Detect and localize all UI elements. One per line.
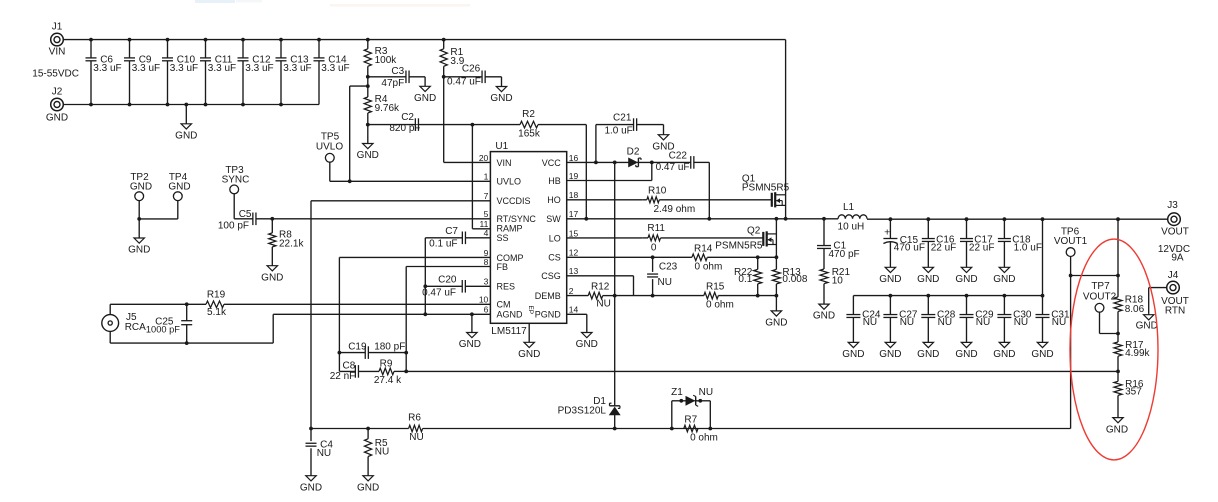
svg-text:CS: CS — [548, 253, 561, 263]
capacitor C22 0.47 uF — [637, 151, 709, 174]
svg-text:GND: GND — [993, 349, 1015, 360]
node C4 — [309, 427, 313, 431]
svg-text:8.06: 8.06 — [1125, 304, 1145, 315]
svg-text:27.4 k: 27.4 k — [374, 375, 402, 386]
svg-text:NU: NU — [596, 299, 610, 310]
resistor R22 0.1 — [734, 257, 762, 295]
node R7 right — [708, 427, 712, 431]
svg-text:820 pF: 820 pF — [389, 123, 420, 134]
node DEMB/R13 — [775, 294, 779, 298]
svg-text:GND: GND — [414, 93, 436, 104]
diode D1 PD3S120L — [558, 396, 620, 429]
svg-text:PSMN5R5: PSMN5R5 — [742, 182, 790, 193]
ground R5 — [357, 476, 379, 494]
svg-text:C22: C22 — [669, 151, 688, 162]
svg-text:GND: GND — [261, 272, 283, 283]
svg-text:3.3 uF: 3.3 uF — [93, 63, 121, 74]
svg-text:D2: D2 — [627, 146, 640, 157]
ground EP pad — [518, 323, 540, 360]
resistor R14 0 ohm — [692, 244, 758, 273]
connector J5 RCA — [102, 312, 146, 333]
svg-text:NU: NU — [900, 317, 914, 328]
node CS/R22 — [756, 255, 760, 259]
svg-text:0.1: 0.1 — [738, 274, 752, 285]
svg-text:3.3 uF: 3.3 uF — [170, 63, 198, 74]
svg-text:180 pF: 180 pF — [374, 342, 405, 353]
svg-text:VOUT2: VOUT2 — [1083, 291, 1117, 302]
svg-text:22 nF: 22 nF — [330, 371, 356, 382]
node D1 anode / VOUT row — [613, 427, 617, 431]
svg-text:5: 5 — [484, 209, 489, 219]
svg-text:GND: GND — [1136, 321, 1158, 332]
svg-text:GND: GND — [490, 93, 512, 104]
svg-text:GND: GND — [879, 349, 901, 360]
svg-text:4.99k: 4.99k — [1125, 348, 1150, 359]
wire C22 to SW — [708, 162, 710, 218]
ground C31 — [1031, 342, 1053, 360]
svg-text:L1: L1 — [843, 202, 855, 213]
svg-text:J2: J2 — [52, 86, 63, 97]
ground C29 — [955, 342, 977, 360]
svg-text:3.3 uF: 3.3 uF — [208, 63, 236, 74]
svg-text:17: 17 — [569, 209, 579, 219]
svg-text:R7: R7 — [684, 415, 697, 426]
wire Q1 drain to VIN rail — [785, 40, 787, 219]
test point TP6 VOUT1 — [1054, 226, 1088, 277]
svg-text:3.3 uF: 3.3 uF — [132, 63, 160, 74]
capacitor C24 NU — [846, 296, 880, 343]
node VCC/R2ramp — [594, 161, 598, 165]
test point TP4 GND — [139, 172, 190, 219]
svg-text:C5: C5 — [239, 209, 252, 220]
wire J5 bottom / AGND return — [110, 314, 490, 343]
svg-text:GND: GND — [917, 274, 939, 285]
svg-text:10: 10 — [479, 295, 489, 305]
svg-text:NU: NU — [938, 317, 952, 328]
svg-text:0 ohm: 0 ohm — [690, 432, 718, 443]
wire J4 to GND — [1149, 288, 1167, 314]
svg-text:SW: SW — [546, 214, 561, 224]
ground C24 — [842, 342, 864, 360]
wire bottom VOUT row — [311, 276, 1071, 429]
svg-text:VIN: VIN — [497, 158, 512, 168]
wire VCCDIS — [311, 201, 490, 429]
wire C19 right down — [404, 353, 408, 374]
capacitor C29 NU — [960, 294, 994, 343]
svg-text:0 ohm: 0 ohm — [695, 262, 723, 273]
svg-text:UVLO: UVLO — [497, 177, 522, 187]
ground J4 — [1136, 314, 1158, 332]
svg-text:HB: HB — [548, 176, 561, 186]
svg-text:GND: GND — [879, 274, 901, 285]
label 15-55VDC — [32, 69, 79, 80]
inductor L1 10 uH — [838, 202, 867, 232]
capacitor C13 3.3 uF — [276, 38, 312, 107]
svg-text:R10: R10 — [648, 185, 667, 196]
connector J3 VOUT — [1161, 200, 1189, 237]
svg-text:CM: CM — [497, 300, 511, 310]
wire C19 left down — [338, 353, 340, 372]
capacitor C5 100 pF — [218, 209, 272, 232]
svg-text:165k: 165k — [518, 128, 541, 139]
svg-text:1.0 uF: 1.0 uF — [1014, 243, 1042, 254]
svg-text:R6: R6 — [408, 413, 421, 424]
ground TP2/TP4 — [128, 219, 150, 256]
resistor R11 0 — [642, 223, 763, 253]
svg-text:HO: HO — [547, 195, 561, 205]
ground R13 — [765, 296, 787, 329]
resistor R17 4.99k — [1114, 333, 1151, 371]
ground input rail — [175, 103, 197, 142]
capacitor C18 1.0 uF — [998, 217, 1042, 267]
svg-text:47pF: 47pF — [381, 78, 404, 89]
capacitor C7 0.1 uF — [425, 226, 490, 250]
wire VIN top rail — [63, 39, 786, 41]
svg-text:5.1k: 5.1k — [207, 307, 227, 318]
wire C31 riser to VOUT — [1041, 217, 1045, 295]
wire LO row — [567, 237, 643, 239]
resistor R3 100k — [364, 38, 397, 77]
svg-text:NU: NU — [409, 432, 423, 443]
svg-text:12: 12 — [569, 248, 579, 258]
svg-text:0.1 uF: 0.1 uF — [429, 239, 457, 250]
svg-text:C19: C19 — [348, 342, 367, 353]
svg-text:GND: GND — [993, 274, 1015, 285]
svg-text:C7: C7 — [445, 226, 458, 237]
wire R1 to VIN pin — [444, 77, 491, 163]
capacitor C6 3.3 uF — [86, 38, 122, 107]
node AGND/GND — [470, 312, 474, 316]
svg-text:SS: SS — [497, 233, 509, 243]
resistor R10 2.49 ohm — [642, 185, 771, 215]
capacitor C15 470 uF — [883, 217, 925, 267]
svg-text:2.49 ohm: 2.49 ohm — [654, 204, 696, 215]
ground C18 — [993, 267, 1015, 285]
svg-text:GND: GND — [46, 113, 68, 124]
node VCC/DEMB riser — [613, 161, 617, 165]
resistor R4 9.76k — [364, 77, 400, 125]
svg-text:9A: 9A — [1171, 253, 1184, 264]
connector J4 VOUT RTN — [1161, 270, 1189, 316]
svg-text:R19: R19 — [207, 290, 226, 301]
svg-text:NU: NU — [1052, 317, 1066, 328]
svg-text:C23: C23 — [659, 261, 678, 272]
node RAMP — [471, 123, 475, 127]
svg-text:22.1k: 22.1k — [279, 239, 304, 250]
wire R2 to SW node — [585, 125, 587, 219]
capacitor C8 22 nF — [330, 361, 379, 382]
svg-text:0.47 uF: 0.47 uF — [447, 76, 481, 87]
node UVLO divider — [366, 84, 370, 88]
node R1/C26 — [442, 75, 446, 79]
svg-text:GND: GND — [175, 130, 197, 141]
node FB/C19/R9 — [404, 351, 408, 355]
svg-text:UVLO: UVLO — [316, 142, 343, 153]
resistor R5 NU — [365, 429, 390, 476]
svg-text:7: 7 — [484, 191, 489, 201]
svg-text:GND: GND — [955, 274, 977, 285]
connector J2 — [46, 86, 68, 123]
svg-text:1000 pF: 1000 pF — [146, 324, 180, 334]
svg-text:DEMB: DEMB — [535, 291, 561, 301]
capacitor C14 3.3 uF — [314, 38, 350, 105]
svg-text:PD3S120L: PD3S120L — [558, 406, 607, 417]
resistor R2 165k — [472, 109, 586, 139]
label 12VDC 9A — [1158, 244, 1190, 264]
capacitor C4 NU — [306, 429, 334, 476]
svg-text:470 pF: 470 pF — [829, 249, 860, 260]
svg-text:+: + — [884, 226, 890, 238]
svg-text:PGND: PGND — [535, 310, 562, 320]
ground C30 — [993, 342, 1015, 360]
ground C4 — [300, 476, 322, 494]
node D2 cathode / HB — [650, 161, 654, 165]
svg-text:RES: RES — [497, 282, 516, 292]
capacitor C1 470 pF — [817, 219, 860, 269]
capacitor C27 NU — [883, 294, 917, 343]
resistor R9 27.4 k — [374, 358, 406, 386]
capacitor C16 22 uF — [922, 217, 956, 267]
capacitor C21 1.0 uF — [596, 112, 664, 162]
wire input GND rail — [63, 104, 319, 106]
wire RAMP to pin11 — [472, 125, 490, 229]
ground R8 — [261, 266, 283, 284]
svg-text:U1: U1 — [495, 141, 508, 152]
wire SW row — [567, 217, 838, 221]
svg-text:3.3 uF: 3.3 uF — [245, 63, 273, 74]
capacitor C31 NU — [1036, 294, 1070, 343]
wire CS row — [567, 255, 692, 259]
node DEMB/VCC riser — [613, 294, 617, 298]
svg-text:C26: C26 — [462, 63, 481, 74]
svg-text:0.47 uF: 0.47 uF — [656, 162, 690, 173]
test point TP2 GND — [130, 172, 152, 219]
wire HB bootstrap — [567, 162, 652, 180]
svg-text:NU: NU — [658, 277, 672, 288]
svg-text:4: 4 — [484, 228, 489, 238]
wire TP6 to R18 node — [1071, 274, 1120, 278]
svg-text:RAMP: RAMP — [497, 223, 523, 233]
capacitor C9 3.3 uF — [124, 38, 160, 107]
resistor R19 5.1k — [206, 290, 490, 319]
svg-text:C21: C21 — [613, 112, 632, 123]
capacitor C20 0.47 uF — [422, 275, 490, 299]
wire HO row — [567, 199, 643, 201]
resistor R15 0 ohm — [704, 282, 777, 311]
connector J1 — [49, 21, 66, 57]
svg-text:NU: NU — [976, 317, 990, 328]
capacitor C23 NU — [647, 257, 678, 297]
svg-text:470 uF: 470 uF — [894, 243, 925, 254]
label R16 — [1125, 379, 1144, 397]
svg-text:19: 19 — [569, 171, 579, 181]
ground C21 — [652, 125, 674, 153]
svg-text:J1: J1 — [52, 21, 63, 32]
resistor R6 NU — [408, 413, 424, 443]
svg-text:6: 6 — [484, 305, 489, 315]
svg-text:NU: NU — [699, 387, 713, 398]
svg-text:EP: EP — [527, 305, 534, 314]
capacitor C11 3.3 uF — [200, 38, 236, 107]
svg-text:GND: GND — [459, 339, 481, 350]
capacitor C26 0.47 uF — [444, 63, 502, 87]
svg-text:R15: R15 — [706, 282, 725, 293]
test point TP5 UVLO — [316, 132, 350, 182]
svg-text:GND: GND — [813, 311, 835, 322]
svg-text:8: 8 — [484, 257, 489, 267]
transistor Q2 PSMN5R5 — [715, 225, 776, 251]
node R4/C2 — [366, 123, 370, 127]
svg-text:Q2: Q2 — [747, 225, 761, 236]
svg-text:10: 10 — [832, 275, 844, 286]
ground C26 — [490, 77, 512, 104]
svg-text:J3: J3 — [1167, 200, 1178, 211]
svg-text:C3: C3 — [391, 66, 404, 77]
test point TP7 VOUT2 — [1083, 281, 1118, 333]
svg-text:R9: R9 — [380, 358, 393, 369]
node R18/R17/TP7 — [1116, 332, 1120, 336]
svg-text:GND: GND — [168, 181, 190, 192]
svg-text:GND: GND — [518, 349, 540, 360]
svg-text:GND: GND — [917, 349, 939, 360]
capacitor C19 180 pF — [339, 342, 406, 359]
capacitor C17 22 uF — [960, 217, 994, 267]
wire J5 top — [110, 304, 206, 314]
svg-text:VOUT1: VOUT1 — [1054, 236, 1088, 247]
op-amp U1 LM5117 controller — [479, 141, 579, 337]
svg-text:0.47 uF: 0.47 uF — [422, 288, 456, 299]
svg-text:RTN: RTN — [1165, 305, 1185, 316]
node R17/R16/feedback — [1116, 370, 1120, 374]
wire PGND — [567, 314, 587, 332]
capacitor C28 NU — [921, 294, 955, 343]
svg-text:R2: R2 — [522, 109, 535, 120]
ground R4 — [357, 125, 379, 162]
svg-text:18: 18 — [569, 190, 579, 200]
node DEMB/R22 — [756, 294, 760, 298]
node COMP/C19 — [338, 351, 342, 355]
svg-text:VOUT: VOUT — [1161, 226, 1189, 237]
ground PGND — [576, 333, 598, 351]
svg-text:R12: R12 — [591, 281, 610, 292]
resistor R12 NU — [567, 281, 615, 309]
svg-text:14: 14 — [569, 305, 579, 315]
svg-text:GND: GND — [128, 245, 150, 256]
svg-text:GND: GND — [300, 482, 322, 493]
svg-text:100k: 100k — [375, 55, 398, 66]
svg-text:22 uF: 22 uF — [969, 243, 995, 254]
svg-text:13: 13 — [569, 266, 579, 276]
svg-text:GND: GND — [765, 318, 787, 329]
ground C16 — [917, 267, 939, 285]
svg-text:100 pF: 100 pF — [218, 220, 249, 231]
svg-text:NU: NU — [317, 448, 331, 459]
wire VCC to DEMB to D1 — [614, 162, 616, 405]
svg-text:LM5117: LM5117 — [491, 326, 527, 337]
node C5/R8 — [270, 217, 274, 221]
svg-text:3.3 uF: 3.3 uF — [321, 63, 349, 74]
svg-text:R11: R11 — [647, 223, 665, 234]
svg-text:15: 15 — [569, 228, 579, 238]
svg-text:9.76k: 9.76k — [375, 103, 400, 114]
wire UVLO to pin1 — [348, 86, 491, 183]
ground R21 — [813, 304, 835, 322]
node R7 left — [670, 427, 674, 431]
wire VOUT row — [867, 218, 1168, 220]
wire feedback long line — [406, 370, 1118, 372]
svg-text:NU: NU — [1014, 317, 1028, 328]
svg-text:C20: C20 — [438, 275, 457, 286]
svg-text:Z1: Z1 — [671, 387, 683, 398]
resistor R18 8.06 — [1114, 219, 1145, 333]
capacitor C2 820 pF — [368, 112, 473, 134]
svg-text:0 ohm: 0 ohm — [706, 300, 734, 311]
node R5 — [366, 427, 370, 431]
svg-text:VCC: VCC — [542, 158, 562, 168]
svg-text:0: 0 — [651, 242, 657, 253]
diode D2 — [627, 146, 641, 166]
wire DEMB row — [615, 295, 704, 297]
svg-text:FB: FB — [497, 262, 509, 272]
ground C17 — [955, 267, 977, 285]
wire SS column — [424, 238, 426, 286]
wire SS/RES column to AGND — [423, 286, 427, 316]
zener diode Z1 NU — [671, 387, 713, 428]
svg-text:GND: GND — [357, 150, 379, 161]
svg-text:J4: J4 — [1168, 270, 1179, 281]
wire RT/SYNC to pin5 — [272, 218, 490, 220]
svg-text:1: 1 — [484, 172, 489, 182]
svg-text:GND: GND — [357, 482, 379, 493]
ground C27 — [879, 342, 901, 360]
resistor R1 3.9 — [440, 38, 465, 77]
svg-text:1.0 uF: 1.0 uF — [604, 126, 632, 137]
svg-text:GND: GND — [1031, 349, 1053, 360]
wire CS to Q2 source — [758, 255, 779, 259]
svg-text:PSMN5R5: PSMN5R5 — [715, 241, 763, 252]
ground R16 — [1106, 418, 1128, 436]
svg-text:NU: NU — [375, 447, 389, 458]
test point TP3 SYNC — [222, 165, 250, 219]
svg-text:R14: R14 — [694, 244, 713, 255]
ground C3 — [414, 77, 436, 104]
svg-text:16: 16 — [569, 153, 579, 163]
svg-text:C2: C2 — [401, 112, 414, 123]
wire FB to C19/R9 — [406, 267, 490, 353]
svg-text:NU: NU — [863, 317, 877, 328]
capacitor C10 3.3 uF — [162, 38, 198, 107]
svg-text:VCCDIS: VCCDIS — [497, 196, 531, 206]
svg-text:RCA: RCA — [125, 322, 146, 333]
svg-text:10 uH: 10 uH — [838, 221, 865, 232]
svg-text:LO: LO — [549, 233, 561, 243]
ground AGND — [459, 314, 481, 350]
svg-text:SYNC: SYNC — [222, 175, 250, 186]
ground C28 — [917, 342, 939, 360]
svg-text:2: 2 — [569, 286, 574, 296]
svg-text:AGND: AGND — [497, 310, 524, 320]
svg-text:GND: GND — [576, 339, 598, 350]
resistor R13 0.008 — [772, 257, 807, 295]
svg-text:15-55VDC: 15-55VDC — [32, 69, 79, 80]
svg-text:0.008: 0.008 — [782, 274, 807, 285]
resistor R21 10 — [820, 267, 850, 304]
capacitor C3 47pF — [368, 66, 425, 89]
wire VCC row — [567, 161, 629, 163]
svg-text:GND: GND — [842, 349, 864, 360]
node VOUT/R18 — [1116, 217, 1120, 221]
svg-text:20: 20 — [479, 153, 489, 163]
